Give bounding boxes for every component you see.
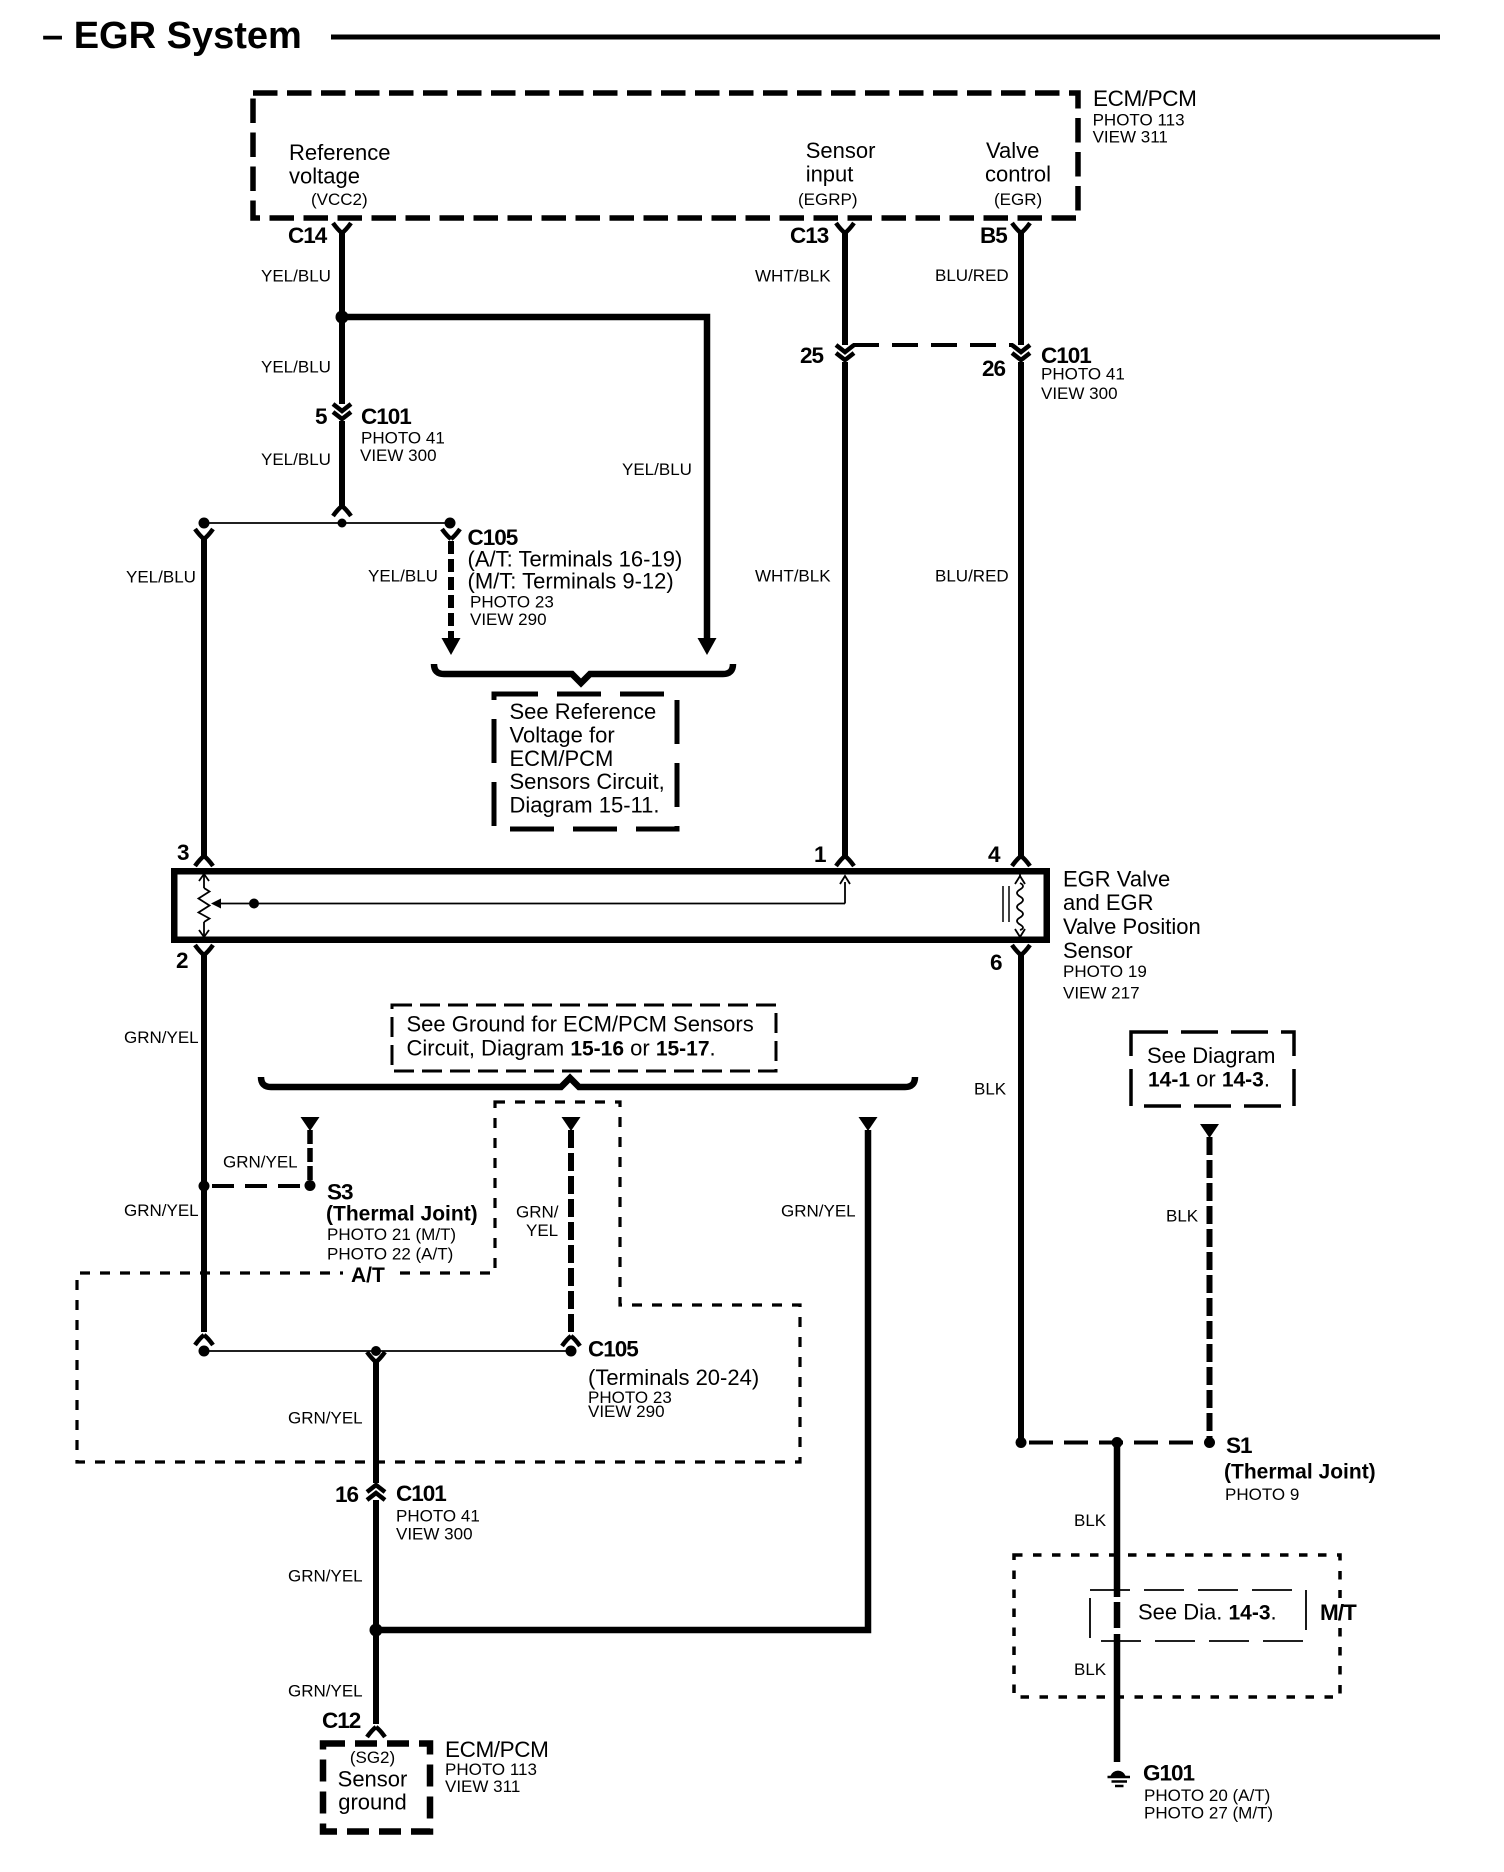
svg-text:4: 4 [988,842,1001,867]
svg-text:Valve: Valve [986,138,1039,163]
svg-text:BLU/RED: BLU/RED [935,567,1009,586]
svg-text:YEL/BLU: YEL/BLU [622,460,692,479]
svg-text:Sensor: Sensor [806,138,876,163]
svg-text:VIEW 290: VIEW 290 [470,610,547,629]
svg-text:See Ground for ECM/PCM Sensors: See Ground for ECM/PCM Sensors [407,1012,754,1037]
svg-text:GRN/YEL: GRN/YEL [124,1201,199,1220]
svg-text:VIEW 311: VIEW 311 [1093,128,1168,147]
svg-text:5: 5 [315,404,327,429]
svg-text:PHOTO 113: PHOTO 113 [1093,110,1185,129]
svg-text:(VCC2): (VCC2) [311,190,368,209]
svg-text:ECM/PCM: ECM/PCM [510,746,614,771]
svg-text:YEL/BLU: YEL/BLU [126,568,196,587]
svg-text:GRN/YEL: GRN/YEL [288,1409,363,1428]
svg-text:GRN/YEL: GRN/YEL [288,1682,363,1701]
svg-text:PHOTO 27 (M/T): PHOTO 27 (M/T) [1144,1804,1273,1823]
svg-text:input: input [806,162,854,187]
svg-text:VIEW 311: VIEW 311 [445,1777,520,1796]
svg-text:VIEW 217: VIEW 217 [1063,984,1140,1003]
svg-text:B5: B5 [980,223,1007,248]
svg-text:(Terminals 20-24): (Terminals 20-24) [588,1365,759,1390]
svg-text:WHT/BLK: WHT/BLK [755,267,831,286]
svg-text:Reference: Reference [289,140,391,165]
svg-text:GRN/YEL: GRN/YEL [288,1567,363,1586]
svg-text:GRN/YEL: GRN/YEL [223,1153,298,1172]
svg-text:C105: C105 [588,1337,638,1362]
svg-text:6: 6 [990,950,1002,975]
svg-text:S1: S1 [1226,1433,1252,1458]
svg-text:C101: C101 [361,404,411,429]
svg-text:C13: C13 [790,223,829,248]
svg-text:Sensor: Sensor [1063,938,1133,963]
svg-text:M/T: M/T [1320,1600,1357,1625]
svg-text:control: control [985,162,1051,187]
svg-text:S3: S3 [327,1180,353,1205]
svg-text:PHOTO 41: PHOTO 41 [1041,365,1125,384]
svg-text:Voltage for: Voltage for [510,722,615,747]
svg-text:(SG2): (SG2) [350,1748,395,1767]
svg-text:See Reference: See Reference [510,699,657,724]
svg-text:Valve Position: Valve Position [1063,914,1201,939]
svg-text:Sensors Circuit,: Sensors Circuit, [510,769,665,794]
svg-text:Sensor: Sensor [338,1766,408,1791]
svg-text:VIEW 300: VIEW 300 [360,446,437,465]
svg-text:voltage: voltage [289,164,360,189]
svg-text:14-1 or 14-3.: 14-1 or 14-3. [1148,1067,1270,1092]
svg-text:PHOTO 41: PHOTO 41 [396,1507,480,1526]
svg-text:ECM/PCM: ECM/PCM [445,1737,548,1762]
svg-text:BLK: BLK [1074,1660,1107,1679]
svg-text:ground: ground [338,1790,407,1815]
svg-text:PHOTO 21 (M/T): PHOTO 21 (M/T) [327,1225,456,1244]
svg-text:16: 16 [335,1482,359,1507]
svg-text:GRN/: GRN/ [516,1203,559,1222]
svg-text:PHOTO 19: PHOTO 19 [1063,962,1147,981]
svg-text:YEL/BLU: YEL/BLU [261,267,331,286]
svg-text:(Thermal Joint): (Thermal Joint) [1224,1461,1376,1484]
svg-text:Diagram 15-11.: Diagram 15-11. [510,793,660,818]
svg-text:26: 26 [982,356,1006,381]
svg-text:YEL/BLU: YEL/BLU [368,567,438,586]
svg-text:VIEW 300: VIEW 300 [1041,384,1118,403]
svg-text:1: 1 [814,842,826,867]
svg-text:BLU/RED: BLU/RED [935,266,1009,285]
svg-text:PHOTO 23: PHOTO 23 [470,593,554,612]
svg-text:VIEW 290: VIEW 290 [588,1402,665,1421]
svg-text:BLK: BLK [974,1080,1007,1099]
svg-text:(M/T: Terminals 9-12): (M/T: Terminals 9-12) [468,569,674,594]
svg-text:PHOTO 9: PHOTO 9 [1225,1485,1299,1504]
svg-text:G101: G101 [1143,1761,1195,1786]
svg-text:BLK: BLK [1074,1511,1107,1530]
svg-text:PHOTO 22 (A/T): PHOTO 22 (A/T) [327,1245,453,1264]
svg-text:YEL/BLU: YEL/BLU [261,358,331,377]
svg-text:See Diagram: See Diagram [1147,1043,1275,1068]
svg-text:3: 3 [177,840,189,865]
svg-text:(EGRP): (EGRP) [798,190,858,209]
svg-text:A/T: A/T [351,1264,385,1287]
svg-text:See Dia. 14-3.: See Dia. 14-3. [1138,1599,1277,1624]
svg-text:PHOTO 41: PHOTO 41 [361,429,445,448]
svg-text:2: 2 [176,948,188,973]
svg-text:PHOTO 20 (A/T): PHOTO 20 (A/T) [1144,1786,1270,1805]
svg-text:C12: C12 [322,1708,361,1733]
svg-text:ECM/PCM: ECM/PCM [1093,86,1196,111]
svg-text:GRN/YEL: GRN/YEL [124,1028,199,1047]
svg-text:(EGR): (EGR) [994,190,1042,209]
svg-text:VIEW 300: VIEW 300 [396,1525,473,1544]
svg-text:YEL: YEL [526,1221,558,1240]
svg-text:and EGR: and EGR [1063,890,1154,915]
svg-text:EGR Valve: EGR Valve [1063,867,1170,892]
svg-text:WHT/BLK: WHT/BLK [755,567,831,586]
svg-text:(Thermal Joint): (Thermal Joint) [326,1203,478,1226]
svg-text:GRN/YEL: GRN/YEL [781,1202,856,1221]
svg-text:Circuit, Diagram 15-16 or 15-1: Circuit, Diagram 15-16 or 15-17. [407,1036,716,1061]
svg-text:– EGR System: – EGR System [42,15,302,57]
svg-text:25: 25 [800,343,824,368]
svg-text:YEL/BLU: YEL/BLU [261,450,331,469]
svg-text:BLK: BLK [1166,1207,1199,1226]
svg-text:C101: C101 [396,1481,446,1506]
svg-text:C14: C14 [288,223,328,248]
